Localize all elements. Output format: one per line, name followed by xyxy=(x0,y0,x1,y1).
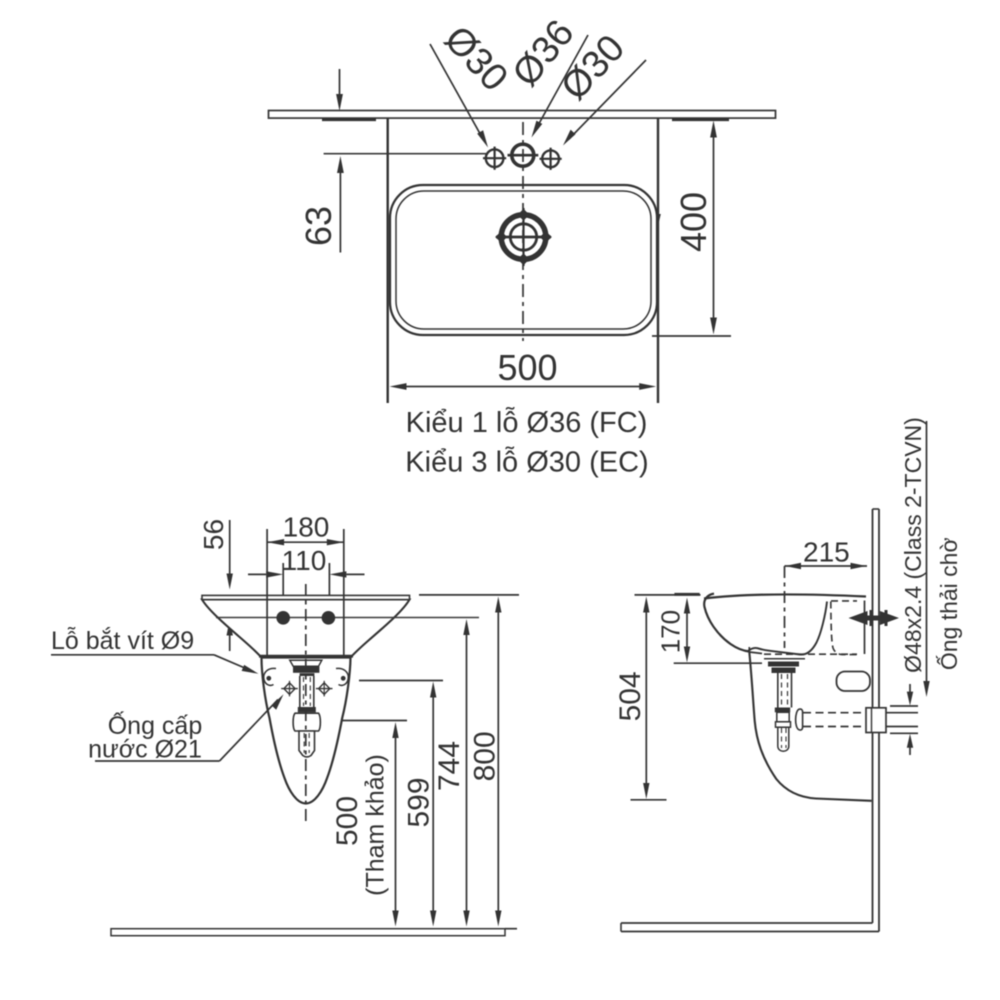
svg-text:Lỗ bắt vít Ø9: Lỗ bắt vít Ø9 xyxy=(51,626,194,655)
svg-text:599: 599 xyxy=(403,777,436,827)
svg-text:180: 180 xyxy=(283,512,330,543)
svg-text:500: 500 xyxy=(497,347,557,388)
svg-text:800: 800 xyxy=(469,731,502,781)
svg-text:63: 63 xyxy=(298,206,339,246)
svg-text:215: 215 xyxy=(803,537,850,568)
svg-text:nước Ø21: nước Ø21 xyxy=(88,736,202,764)
svg-text:744: 744 xyxy=(433,741,466,791)
svg-text:Kiểu 3 lỗ Ø30 (EC): Kiểu 3 lỗ Ø30 (EC) xyxy=(405,446,648,479)
svg-text:Ø30: Ø30 xyxy=(436,18,516,99)
svg-text:504: 504 xyxy=(614,671,647,721)
svg-text:170: 170 xyxy=(656,610,686,653)
svg-text:Ø48x2.4 (Class 2-TCVN): Ø48x2.4 (Class 2-TCVN) xyxy=(900,417,926,673)
svg-text:56: 56 xyxy=(198,519,229,550)
svg-text:110: 110 xyxy=(282,545,327,576)
svg-text:Ống thải chờ: Ống thải chờ xyxy=(935,537,962,670)
svg-text:400: 400 xyxy=(673,192,714,252)
svg-text:(Tham khảo): (Tham khảo) xyxy=(362,754,390,896)
svg-text:500: 500 xyxy=(331,796,364,846)
svg-text:Kiểu 1 lỗ Ø36 (FC): Kiểu 1 lỗ Ø36 (FC) xyxy=(406,406,648,439)
